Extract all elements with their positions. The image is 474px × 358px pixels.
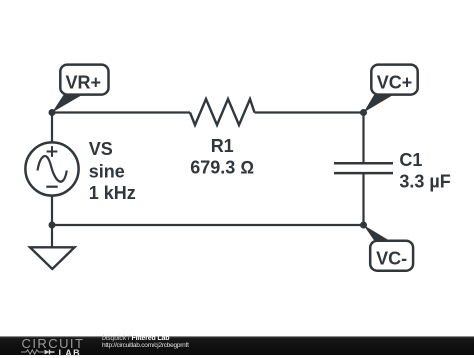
svg-text:VC-: VC- — [376, 249, 407, 269]
svg-text:3.3 µF: 3.3 µF — [399, 171, 450, 191]
svg-text:VR+: VR+ — [66, 73, 102, 93]
svg-text:VS: VS — [89, 139, 113, 159]
svg-text:C1: C1 — [399, 150, 422, 170]
svg-text:R1: R1 — [211, 136, 234, 156]
svg-text:1 kHz: 1 kHz — [89, 183, 136, 203]
svg-text:VC+: VC+ — [377, 73, 413, 93]
svg-text:679.3 Ω: 679.3 Ω — [190, 158, 254, 178]
svg-text:sine: sine — [89, 161, 125, 181]
